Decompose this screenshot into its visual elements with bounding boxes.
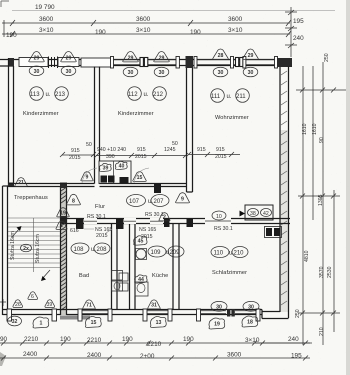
closet label 40 [115, 161, 127, 169]
marker triangle 9 flur right [176, 193, 190, 203]
room number 110 u 210 [211, 247, 248, 258]
marker triangle 19 [57, 208, 70, 217]
right dim vertical lines [303, 62, 334, 345]
kueche cloud 44 [135, 275, 148, 283]
kueche fixture cloud 45 [134, 236, 147, 245]
paper right edge [346, 0, 350, 375]
door flag Kueche [164, 219, 170, 227]
window K113 left [19, 58, 48, 67]
wall flur north [9, 184, 95, 187]
wall bottom staircase bay [3, 310, 61, 315]
balcony door box 38 42 [240, 205, 274, 220]
door flag Treppenhaus [60, 216, 67, 224]
window marker triangle 28 e [213, 49, 229, 59]
door arc K112 [134, 168, 149, 183]
sill marker oval 30 d [154, 67, 169, 77]
dim 195 top right [285, 7, 304, 57]
sill shade [60, 316, 90, 320]
wall staircase outer left [3, 186, 8, 315]
window cap [231, 57, 234, 69]
room number 112 u 212 [128, 87, 167, 101]
tick marks row2 [10, 20, 291, 26]
closet door leaf filled b [120, 177, 129, 184]
left edge ticks [2, 20, 14, 37]
window K112 thin lines [113, 60, 177, 65]
sill oval 32 [8, 316, 22, 326]
wall Kueche left [130, 224, 136, 310]
stair arrow down [42, 270, 50, 279]
bad sill cloud 15 [85, 316, 101, 327]
schlaf window 2 [235, 311, 256, 314]
marker triangle 8 [67, 194, 81, 205]
bad window triangle 71 [83, 300, 96, 309]
schlaf cloud 19 [209, 318, 225, 329]
bad window [82, 311, 108, 314]
schlaf cloud 18 [242, 316, 258, 327]
closet label 39 [99, 163, 111, 171]
door marker triangle 9+ [81, 172, 93, 181]
window cap [194, 57, 197, 69]
room number 108 u 208 [71, 243, 110, 254]
window Wohnzimmer thin lines [197, 60, 277, 65]
sill marker oval 30 f [243, 67, 258, 77]
window pillar K112 [140, 58, 143, 67]
wall junction fill treppenhaus [60, 183, 67, 189]
marker triangle 21 [15, 178, 27, 187]
bad fixture wc [112, 281, 123, 291]
wall flur south [61, 219, 206, 224]
sill marker oval 30 a [29, 66, 44, 76]
wall between Kinderzimmer 113 and 112 [95, 67, 100, 184]
window pillar divider [49, 57, 58, 69]
dim line row3 [12, 33, 290, 35]
window caps staircase [7, 309, 12, 321]
schlaf sill oval 30 a [211, 301, 227, 311]
window cap [243, 57, 246, 69]
door opening Kueche [150, 218, 163, 224]
wall right outer with hatch [281, 130, 289, 312]
schlaf sill oval 30 b [243, 301, 259, 311]
stair arrow up [12, 228, 20, 237]
door opening Bad [84, 218, 97, 224]
kueche sill cloud 13 [150, 316, 166, 327]
marker triangle 2 [159, 213, 170, 221]
window cap [111, 57, 114, 69]
shaft fixtures [119, 273, 128, 281]
window marker triangle 29 f [243, 49, 259, 59]
door flag shaft [116, 219, 124, 229]
closet door leaf filled a [101, 176, 108, 183]
window marker triangle 29 a [29, 52, 45, 62]
wall hooks below 38/42 [266, 228, 280, 236]
window marker triangle 29 c [123, 52, 139, 62]
wall between Kinderzimmer 112 and Wohnzimmer [187, 68, 193, 192]
sill marker oval 30 b [61, 66, 76, 76]
dim row 2 [0, 357, 310, 359]
sill marker oval 30 e [213, 67, 228, 77]
kueche fixture sink [136, 249, 146, 259]
window K113 right [58, 58, 79, 67]
paper corner mark top-left [1, 1, 9, 7]
wall top exterior lines [0, 60, 290, 67]
door arc K113 [82, 168, 97, 183]
dim row 1 [0, 342, 310, 344]
wall junction fill left [8, 183, 14, 188]
door flag Bad [76, 219, 84, 229]
wall top left corner block [8, 58, 14, 66]
kueche window [147, 311, 168, 314]
closet box 39/40 [99, 161, 131, 184]
window marker triangle 29 b [61, 52, 77, 62]
wall bottom schlafzimmer [196, 310, 262, 315]
window cap [176, 57, 179, 69]
bad fixture sink [112, 271, 123, 281]
door oval 10 [212, 211, 226, 220]
dim line row2 [12, 22, 290, 24]
wall left outer [9, 58, 14, 186]
wall bottom main [61, 310, 197, 315]
window marker triangle 29 d [154, 52, 170, 62]
kueche window triangle 31 [148, 300, 161, 309]
paper corner smudge bottom-left [0, 352, 6, 366]
marker triangle 1 [56, 221, 67, 229]
schlaf window 1 [201, 311, 226, 314]
wall junction block K112/Wohnzimmer [186, 56, 194, 68]
sill marker oval 30 c [123, 67, 138, 77]
landing marks [28, 292, 38, 300]
survey cross left edge [0, 299, 6, 306]
wall top right corner block [277, 58, 292, 67]
window over wall junction [81, 58, 112, 67]
sill cloud 1 [33, 317, 49, 328]
door hinge block flur [154, 184, 161, 193]
window pillar Wohnzimmer [236, 58, 239, 67]
stair steps [8, 218, 60, 272]
door flag wohnzimmer junction [187, 219, 194, 228]
dim total 19790 [12, 4, 335, 11]
schlaf window pillar [227, 309, 230, 317]
door marker triangle 15 [133, 172, 147, 182]
room number 113 u 213 [30, 87, 69, 101]
room number 109 u 209 [148, 246, 184, 257]
wall Bad right [112, 224, 118, 310]
stair cloud 2x [21, 244, 32, 252]
wall Treppenhaus right (hatched) [61, 186, 67, 315]
kueche fixture stove [135, 282, 148, 296]
room number 107 u 207 [127, 195, 170, 207]
right ticks [296, 88, 346, 93]
room number 111 u 211 [211, 89, 250, 103]
door opening shaft [124, 218, 136, 224]
wall Kueche / Schlafzimmer [173, 224, 179, 310]
bottom right corner step [262, 310, 289, 319]
